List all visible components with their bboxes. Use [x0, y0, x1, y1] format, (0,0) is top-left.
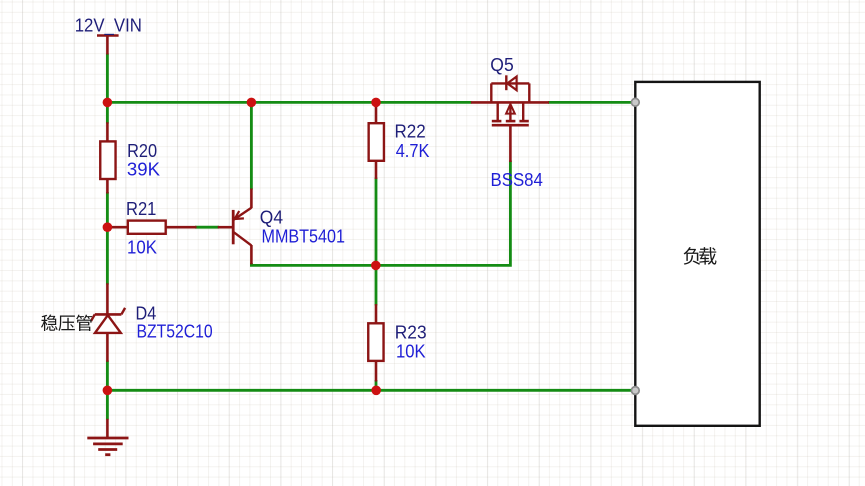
- svg-text:R21: R21: [126, 199, 156, 219]
- svg-text:R23: R23: [395, 323, 427, 343]
- svg-text:MMBT5401: MMBT5401: [262, 226, 346, 246]
- svg-text:10K: 10K: [127, 238, 157, 258]
- svg-text:D4: D4: [136, 303, 157, 323]
- svg-text:BSS84: BSS84: [491, 170, 543, 190]
- svg-text:R22: R22: [395, 121, 426, 141]
- svg-text:4.7K: 4.7K: [396, 141, 430, 161]
- svg-text:Q4: Q4: [260, 208, 283, 228]
- svg-text:10K: 10K: [396, 342, 426, 362]
- svg-text:12V_VIN: 12V_VIN: [75, 15, 142, 36]
- svg-text:R20: R20: [127, 141, 157, 161]
- svg-text:Q5: Q5: [490, 55, 513, 75]
- svg-text:BZT52C10: BZT52C10: [137, 322, 213, 342]
- svg-text:39K: 39K: [127, 160, 160, 180]
